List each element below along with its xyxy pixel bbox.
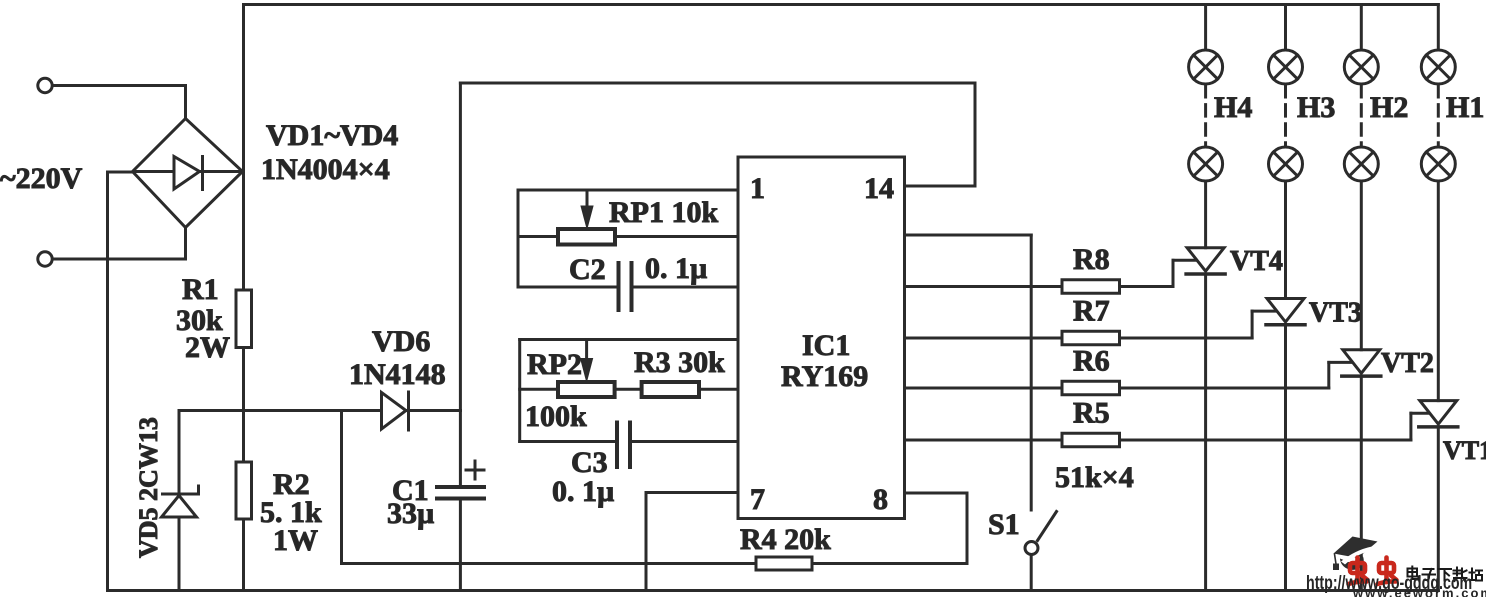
wire: C1 bottom lead to ground rail (459, 500, 462, 591)
capacitor C1 (polarized) (437, 487, 484, 499)
wire: H1 thyristor cathode to ground rail (1437, 427, 1440, 591)
svg-text:8: 8 (873, 483, 888, 516)
wire: R8 to VT4 gate (1120, 260, 1196, 286)
op-amp / IC U1: IC1 RY169 box (738, 157, 905, 519)
wire: H2 thyristor cathode to ground rail (1360, 376, 1363, 590)
wire: dashed link between H3 lamps (1284, 86, 1287, 146)
wire: horizontal link y=563.5 to R4 (342, 562, 757, 565)
label: R8 (1073, 243, 1110, 276)
label: S1 (988, 508, 1020, 541)
resistor R1 (236, 290, 252, 348)
wire: VD6 anode node down-leg (340, 411, 343, 564)
svg-text:H2: H2 (1370, 91, 1408, 124)
wire: VD5 branch upper lead (178, 411, 181, 495)
wire: supply vertical (pin14 loop left / C1 top lead) (459, 83, 462, 486)
svg-text:S1: S1 (988, 508, 1020, 541)
svg-text:RY169: RY169 (781, 360, 868, 393)
label: R7 (1073, 295, 1110, 328)
label: C3 0.1u (552, 446, 614, 508)
svg-text:H4: H4 (1214, 91, 1252, 124)
svg-text:R6: R6 (1073, 345, 1110, 378)
svg-text:100k: 100k (525, 400, 587, 433)
svg-text:0. 1µ: 0. 1µ (645, 252, 707, 285)
lamp H2 lower (1344, 147, 1378, 181)
wire: H3 thyristor cathode to ground rail (1284, 325, 1287, 591)
wire: left vertical rail (AC-) (106, 172, 109, 591)
label: RP2 100k (525, 348, 587, 433)
svg-text:www.eeworm.com: www.eeworm.com (1352, 586, 1486, 597)
bridge rectifier VD1~VD4 (diamond) (133, 119, 243, 228)
svg-text:RP2: RP2 (527, 348, 582, 381)
svg-text:14: 14 (864, 172, 894, 205)
svg-text:VD6: VD6 (372, 325, 430, 358)
svg-text:VT2: VT2 (1381, 348, 1434, 379)
svg-text:R1: R1 (182, 273, 219, 306)
lamp H2 upper (1344, 50, 1378, 84)
wire: C3 leads (520, 440, 738, 443)
wire: supply top loop to pin 14 (460, 83, 975, 186)
lamp H1 upper (1421, 50, 1455, 84)
lamp H3 lower (1269, 147, 1303, 181)
lamp H1 lower (1421, 147, 1455, 181)
wire: IC to R7 (905, 337, 1063, 340)
wire: R1 bottom to node at y=410.5 (242, 348, 245, 411)
resistor R6 (1062, 381, 1120, 395)
wire: regulated node horizontal (VD5/R2/VD6 line) (179, 409, 461, 412)
resistor R3 (642, 382, 699, 397)
wire: top AC lead to bridge top vertex (53, 86, 186, 119)
svg-text:R5: R5 (1073, 397, 1110, 430)
wire: R6 to VT2 gate (1120, 362, 1351, 388)
svg-text:51k×4: 51k×4 (1055, 461, 1134, 494)
pin 8 label (873, 483, 888, 516)
svg-text:1N4148: 1N4148 (349, 358, 446, 391)
svg-text:VD5 2CW13: VD5 2CW13 (134, 417, 163, 558)
potentiometer RP1 body (558, 229, 615, 245)
label: IC1 RY169 (781, 329, 868, 393)
wire: IC to S1 (905, 234, 1032, 237)
resistor R4 (756, 557, 812, 570)
wire: RP2/C3 left vertical (518, 340, 521, 442)
wire: DC+ vertical from top rail through bridge right vertex to R1 (242, 5, 245, 291)
wire: H4 column top stub (1204, 5, 1207, 51)
switch S1 (1025, 235, 1057, 591)
label: VT1 (1443, 436, 1486, 465)
wire: H1 column to thyristor anode (1437, 181, 1440, 401)
wire: H1 column top stub (1437, 5, 1440, 51)
label: VT3 (1309, 298, 1362, 329)
wire: RP2/R3 leads (520, 388, 738, 391)
capacitor C2 (619, 263, 632, 310)
potentiometer RP2 wiper arrow (581, 340, 593, 382)
wire: H3 column to thyristor anode (1284, 181, 1287, 299)
svg-text:VD1~VD4: VD1~VD4 (266, 119, 398, 152)
diode symbol inside bridge (174, 157, 203, 190)
label: R3 30k (634, 346, 725, 379)
label: VD6 1N4148 (349, 325, 446, 391)
wire: VD5 lower lead to ground rail (178, 517, 181, 591)
lamp H3 upper (1269, 50, 1303, 84)
svg-text:VT4: VT4 (1230, 246, 1283, 277)
resistor R5 (1062, 433, 1120, 447)
svg-text:7: 7 (750, 483, 765, 516)
diode VD6 (382, 392, 409, 430)
label: R5 (1073, 397, 1110, 430)
wire: RP1 leads (518, 235, 738, 238)
svg-text:R7: R7 (1073, 295, 1110, 328)
potentiometer RP1 wiper arrow (581, 190, 593, 229)
label: R1 30k 2W (176, 273, 230, 364)
terminal: AC input bottom (38, 252, 52, 266)
svg-text:1N4004×4: 1N4004×4 (261, 153, 390, 186)
svg-text:~220V: ~220V (0, 162, 83, 195)
wire: IC to R6 (905, 387, 1063, 390)
label: ~220V (0, 162, 83, 195)
wire: top rail (244, 3, 1439, 6)
watermark: red chongchong characters (1349, 558, 1397, 585)
wire: H3 column top stub (1284, 5, 1287, 51)
wire: node to R2 top (242, 411, 245, 463)
label: H1 (1446, 91, 1484, 124)
svg-text:R3 30k: R3 30k (634, 346, 725, 379)
wire: C2 leads (518, 286, 738, 289)
label: C2 0.1u (569, 252, 707, 286)
label: H3 (1297, 91, 1335, 124)
potentiometer RP2 body (558, 382, 615, 397)
wire: dashed link between H2 lamps (1360, 86, 1363, 146)
svg-text:H1: H1 (1446, 91, 1484, 124)
wire: pin7 lead and ground leg (646, 493, 738, 591)
wire: dashed link between H1 lamps (1437, 86, 1440, 146)
watermark: graduation cap logo (1333, 537, 1378, 571)
pin 7 label (750, 483, 765, 516)
svg-text:R4 20k: R4 20k (740, 523, 831, 556)
label: VD1~VD4 1N4004x4 (261, 119, 398, 186)
label: H2 (1370, 91, 1408, 124)
wire: pin 1 lead (518, 189, 738, 192)
resistor R2 (236, 462, 252, 519)
wire: RP1/C2 left vertical (517, 190, 520, 287)
lamp H4 upper (1189, 50, 1223, 84)
thyristor VT3 (1266, 299, 1305, 325)
watermark: black site name glyphs (1408, 567, 1483, 582)
svg-text:C2: C2 (569, 253, 606, 286)
label: 51k x4 (1055, 461, 1134, 494)
terminal: AC input top (38, 78, 52, 92)
watermark: blue url text (1306, 572, 1472, 594)
zener diode VD5 (162, 486, 199, 517)
label: H4 (1214, 91, 1252, 124)
label: R4 20k (740, 523, 831, 556)
svg-text:R8: R8 (1073, 243, 1110, 276)
wire: R7 to VT3 gate (1120, 311, 1276, 338)
wire: H2 column to thyristor anode (1360, 181, 1363, 350)
thyristor VT4 (1186, 248, 1225, 274)
svg-text:0. 1µ: 0. 1µ (552, 475, 614, 508)
svg-text:VT3: VT3 (1309, 298, 1362, 329)
wire: H4 column to thyristor anode (1204, 181, 1207, 248)
wire: H4 thyristor cathode to ground rail (1204, 274, 1207, 591)
label: C1 33u (387, 474, 434, 530)
wire: RP2 top lead (520, 338, 738, 341)
resistor R7 (1062, 331, 1120, 345)
capacitor C3 (617, 423, 630, 468)
wire: bottom AC lead to bridge bottom vertex (53, 228, 186, 260)
label: VT4 (1230, 246, 1283, 277)
wire: pin8 riser and lead (905, 493, 968, 564)
svg-text:1: 1 (750, 172, 765, 205)
label: VT2 (1381, 348, 1434, 379)
label: R2 5.1k 1W (260, 468, 322, 557)
svg-text:RP1 10k: RP1 10k (609, 196, 718, 229)
wire: bottom ground rail (108, 589, 1439, 592)
lamp H4 lower (1189, 147, 1223, 181)
resistor R8 (1062, 280, 1120, 294)
wire: R4 right to pin8 riser (812, 562, 967, 565)
svg-text:33µ: 33µ (387, 497, 434, 530)
wire: H2 column top stub (1360, 5, 1363, 51)
label: R6 (1073, 345, 1110, 378)
pin 14 label (864, 172, 894, 205)
label: VD5 2CW13 (rotated) (134, 417, 163, 558)
pin 1 label (750, 172, 765, 205)
thyristor VT1 (1419, 401, 1458, 427)
thyristor VT2 (1342, 350, 1381, 376)
svg-text:2W: 2W (185, 331, 230, 364)
svg-text:VT1: VT1 (1443, 436, 1486, 465)
wire: dashed link between H4 lamps (1204, 86, 1207, 146)
svg-text:H3: H3 (1297, 91, 1335, 124)
wire: R2 bottom to ground rail (242, 519, 245, 591)
wire: bridge left vertex to left rail (108, 171, 135, 174)
svg-text:IC1: IC1 (802, 329, 850, 362)
label: RP1 10k (609, 196, 718, 229)
label: C1 plus sign (466, 461, 484, 479)
svg-text:1W: 1W (273, 524, 318, 557)
wire: IC to R5 (905, 439, 1063, 442)
wire: IC to R8 (905, 285, 1063, 288)
wire: R5 to VT1 gate (1120, 413, 1428, 440)
watermark: gray url text (1352, 586, 1486, 597)
